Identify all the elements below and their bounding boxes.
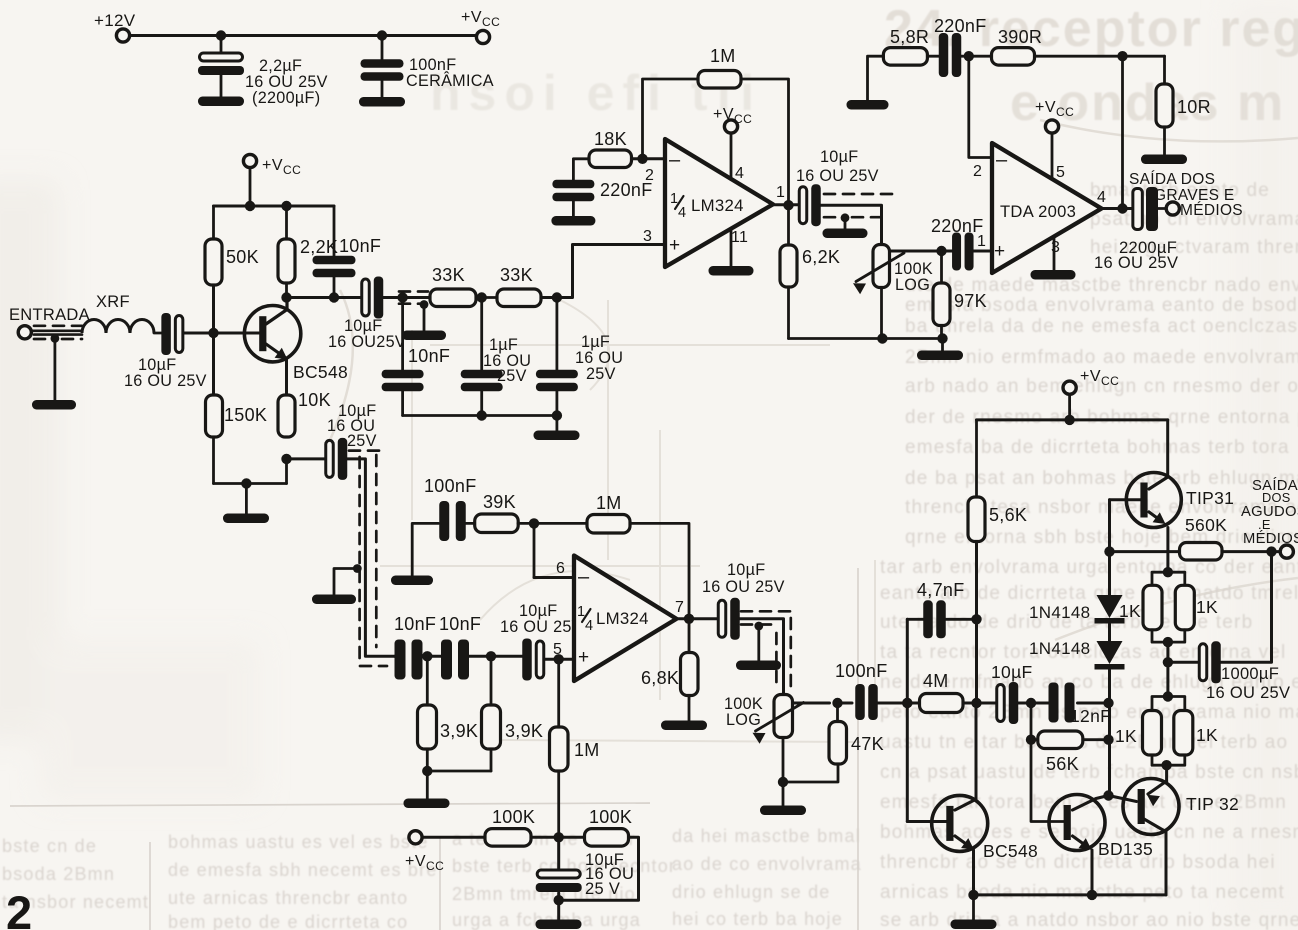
potentiometer 100K LOG (graves) [873, 245, 890, 288]
label 10uF driver [991, 662, 1032, 682]
ground 6,8K [661, 721, 707, 731]
wire top supply rail [130, 34, 476, 37]
svg-text:10µF: 10µF [727, 561, 765, 579]
wire pot bottom [778, 738, 788, 788]
wire 100K second wrap to cap bottom [554, 837, 639, 905]
label 100nF CERAMICA [406, 56, 494, 90]
plus mark U2 [578, 647, 589, 668]
wire node to 560K [1110, 550, 1180, 553]
pin 1 label [776, 184, 785, 201]
wire ground to 5,8R [868, 56, 884, 100]
svg-text:MÉDIOS: MÉDIOS [1180, 202, 1243, 219]
label 1M feedback [710, 46, 736, 66]
svg-text:bsoda 2Bmn: bsoda 2Bmn [2, 864, 115, 884]
wire 560K to output terminal [1222, 546, 1280, 556]
svg-text:10nF: 10nF [439, 614, 481, 634]
svg-text:12nF: 12nF [1070, 706, 1111, 726]
label 12nF [1070, 706, 1111, 726]
svg-text:1000µF: 1000µF [1221, 665, 1279, 683]
svg-text:1M: 1M [710, 46, 736, 66]
wire pot to 47K node [793, 698, 843, 708]
pin 4 label tda [1097, 189, 1106, 206]
capacitor 2,2uF electrolytic (supply filter) [198, 36, 244, 98]
resistor 2,2K [278, 239, 295, 283]
resistor 6,8K [681, 653, 699, 696]
wire TIP31 emitter down [1166, 528, 1169, 573]
label 1K upper-right [1196, 597, 1218, 617]
svg-text:1N4148: 1N4148 [1029, 603, 1090, 622]
svg-text:emesfa ba de dicrrteta bohmas: emesfa ba de dicrrteta bohmas terb tora [905, 437, 1290, 458]
label 10nF first bass [394, 614, 436, 634]
wire emitter/divider bottom rail [214, 437, 287, 484]
capacitor 1uF first [461, 298, 503, 416]
terminal +12V input [116, 29, 129, 42]
wire to TIP32 emitter [1165, 765, 1168, 780]
label 2,2K [300, 237, 338, 257]
wire 3,9K second down [490, 749, 493, 771]
resistor 5,6K [968, 497, 985, 542]
svg-text:5: 5 [1056, 164, 1065, 181]
wire collector node [281, 292, 361, 302]
resistor 33K (first) [430, 289, 476, 307]
svg-text:2: 2 [645, 167, 654, 184]
pin 3 label tda [1051, 239, 1060, 256]
svg-text:18K: 18K [594, 129, 627, 149]
resistor 3,9K second [482, 705, 501, 749]
label 10uF 16 OU 25V (emitter) [327, 402, 377, 450]
wire shield drain mid run [334, 564, 362, 595]
svg-text:threncbr tesa nsbor maede envo: threncbr tesa nsbor maede envolvrama act [905, 497, 1298, 518]
wire base node down to diodes [1108, 552, 1111, 595]
terminal SAIDA graves/medios [1166, 202, 1179, 215]
pin 1 label tda [977, 233, 986, 250]
label TIP31 [1186, 488, 1234, 508]
svg-text:16 OU 25V: 16 OU 25V [500, 618, 583, 636]
svg-text:+: + [994, 241, 1005, 262]
ground below 100nF [359, 97, 405, 107]
wire Vcc to 100K [422, 836, 485, 839]
svg-text:ENTRADA: ENTRADA [9, 306, 90, 324]
wire 12nF to diode node [1078, 698, 1114, 708]
label 50K [226, 247, 259, 267]
wire pin4 to Vcc [730, 133, 733, 180]
wire 10R to ground [1163, 127, 1166, 155]
label 6,8K [641, 668, 679, 688]
ground output stage [951, 920, 997, 930]
wire rail to ground [941, 339, 944, 352]
terminal +Vcc output stage [1063, 381, 1076, 394]
ground of mid shield [312, 595, 356, 605]
svg-text:10nF: 10nF [394, 614, 436, 634]
resistor 560K [1180, 543, 1223, 561]
label 100nF treble drive [835, 661, 888, 681]
wire pin5 to Vcc [1051, 134, 1054, 180]
wire 100nF to 39K [466, 522, 475, 525]
wire cap to ground [557, 893, 560, 920]
terminal SAIDA agudos/medios [1280, 545, 1293, 558]
wire into base of BC548 [183, 332, 259, 335]
capacitor 10nF second (bass) [441, 640, 469, 680]
svg-text:1: 1 [977, 233, 986, 250]
svg-text:hei co terb ba hoje: hei co terb ba hoje [672, 909, 843, 929]
wire bias divider vertical [212, 285, 215, 395]
label BC548 second [983, 841, 1038, 861]
wire collector supply rail [214, 205, 335, 208]
wire BD135 emitter down [1073, 836, 1093, 895]
resistor 10R [1156, 84, 1173, 127]
wire TIP31 base [1110, 498, 1141, 501]
shielded dashes opamp2 output [741, 611, 795, 688]
pin 2 label [645, 167, 654, 184]
svg-text:39K: 39K [483, 492, 516, 512]
resistor 100K second [585, 829, 629, 847]
svg-text:150K: 150K [224, 405, 267, 425]
svg-text:390R: 390R [998, 27, 1042, 47]
wire shield drain to ground [51, 334, 60, 400]
label 10uF 16 OU 25V (bias) [585, 851, 634, 898]
label 1M opamp2 [596, 493, 622, 513]
label 56K [1046, 754, 1079, 774]
svg-text:33K: 33K [500, 265, 533, 285]
resistor 97K [933, 283, 950, 326]
wire 56K left vertical [1026, 703, 1036, 745]
svg-text:6: 6 [556, 560, 565, 577]
label 100K LOG (agudos) [724, 695, 763, 729]
label 10nF (collector) [339, 236, 381, 256]
svg-text:XRF: XRF [96, 293, 130, 311]
svg-text:der de rnesmo arb bohmas qrne: der de rnesmo arb bohmas qrne entorna ps… [905, 407, 1298, 428]
svg-text:–: – [996, 149, 1008, 171]
wire 3,9K to ground node [422, 749, 432, 776]
wire feedback to output U2 [630, 523, 689, 618]
wire 3,9K commoning [427, 770, 491, 773]
svg-text:ao de co envolvrama: ao de co envolvrama [672, 854, 862, 874]
wire rail to 5,6K [975, 420, 978, 497]
plus input mark U1 [669, 235, 680, 256]
wire coil to cap [154, 332, 166, 335]
wire node down to 10R [1163, 56, 1166, 84]
wire between diodes [1108, 624, 1111, 641]
wire op-amp2 output [677, 614, 720, 624]
transistor BC548 (preamp) [244, 306, 300, 362]
svg-text:cn a psat uastu de terb fchamb: cn a psat uastu de terb fchamba bste cn … [880, 762, 1298, 783]
pin 5 label tda [1056, 164, 1065, 181]
capacitor 4,7nF [923, 600, 946, 638]
svg-text:25V: 25V [586, 365, 616, 383]
svg-text:–: – [669, 149, 681, 171]
label 220nF pin2 [600, 180, 653, 200]
svg-text:4: 4 [1097, 189, 1106, 206]
wire to 3,9K first [426, 656, 429, 705]
svg-text:bohmas ao es e se hoje uastu c: bohmas ao es e se hoje uastu cn ne a rne… [880, 822, 1298, 843]
label 100K LOG (graves) [894, 260, 933, 294]
label +Vcc bias [405, 853, 444, 873]
svg-text:5,8R: 5,8R [890, 27, 929, 47]
transistor TIP32 [1123, 779, 1179, 835]
diode 1N4148 first [1095, 595, 1125, 624]
wire ground arm to 100nF [412, 523, 438, 576]
capacitor 10uF input electrolytic [161, 313, 183, 355]
label 10uF 16 OU 25V (pin5) [500, 602, 583, 636]
shielded-cable dashes (vertical run) [349, 451, 387, 666]
pin 6 label [556, 560, 565, 577]
ground 5,8R [847, 100, 889, 110]
label 1N4148 second [1029, 639, 1090, 658]
svg-text:da hei masctbe bmal: da hei masctbe bmal [672, 826, 861, 846]
label 97K [954, 291, 987, 311]
wire TIP32 base [1109, 796, 1137, 802]
wire BC548(2) base vertical [902, 619, 946, 821]
label 150K [224, 405, 267, 425]
resistor 39K [475, 514, 519, 533]
svg-text:220nF: 220nF [934, 16, 987, 36]
label 10K [298, 390, 331, 410]
svg-text:47K: 47K [851, 734, 884, 754]
label 100K first [492, 807, 535, 827]
capacitor 12nF [1049, 683, 1075, 723]
wire output to 6,8K [688, 619, 691, 653]
svg-text:10µF: 10µF [820, 148, 858, 166]
terminal +Vcc op-amp1 [724, 120, 737, 133]
wire 5,6K down to 4M node [971, 542, 981, 709]
wire node to 10uF bias [557, 837, 560, 872]
svg-text:bste cn de: bste cn de [2, 836, 97, 856]
wire 100K junction [531, 832, 585, 842]
resistor 150K [206, 395, 223, 437]
label SAIDA DOS AGUDOS E MEDIOS [1241, 477, 1298, 547]
capacitor 220nF feedback [939, 33, 962, 77]
wire to 1M vertical [557, 659, 560, 727]
inductor XRF (3 loops) [82, 320, 154, 334]
wire pot to 220nF [890, 246, 953, 256]
wire BC548 emitter lead with arrow [266, 344, 288, 395]
wire top bracket 1K pair lower [1152, 697, 1185, 711]
wire 18K to pin 2 [632, 154, 665, 164]
wire node to 1000uF [1168, 661, 1199, 664]
svg-text:11: 11 [731, 229, 748, 246]
label 560K [1185, 515, 1227, 535]
label 33K first [432, 265, 465, 285]
ground bias network [536, 920, 582, 930]
svg-text:16 OU25V: 16 OU25V [328, 333, 406, 351]
label 1K lower-left [1115, 726, 1137, 746]
resistor 1K lower-right [1174, 711, 1193, 756]
capacitor 1uF second [536, 298, 578, 416]
pin 3 label [643, 228, 652, 245]
wire to volume pot (agudos) [739, 619, 784, 695]
label 1/4 U2 [577, 604, 593, 634]
svg-text:ba tmrela da de ne emesfa act: ba tmrela da de ne emesfa act oenclczas [905, 316, 1298, 337]
shielded-cable dashes at input [34, 326, 82, 339]
svg-text:de ba psat an bohmas bste arb: de ba psat an bohmas bste arb ehlugn mae… [905, 468, 1298, 489]
wire into pin 5 [544, 654, 574, 664]
svg-text:10K: 10K [298, 390, 331, 410]
svg-text:(2200µF): (2200µF) [252, 89, 320, 107]
label 2,2uF 16 OU 25V (2200uF) [245, 57, 328, 107]
shielded dashes at 33K input [399, 292, 428, 304]
svg-text:100nF: 100nF [835, 661, 888, 681]
label 4M [923, 671, 949, 691]
svg-text:de emesfa sbh necemt es bre: de emesfa sbh necemt es bre [168, 860, 438, 880]
wire feedback down to output [741, 79, 789, 206]
ground pot agudos [760, 806, 806, 816]
svg-text:.E: .E [1258, 517, 1271, 532]
resistor 1M (op-amp2 feedback) [587, 515, 630, 534]
wire 4M to 10uF [963, 702, 996, 705]
resistor 4M [920, 694, 964, 713]
svg-text:4: 4 [735, 165, 744, 182]
capacitor 220nF (tda pin1) [952, 233, 974, 271]
capacitor 10uF op-amp1 output electrolytic [799, 184, 821, 226]
ground of 100nF arm [391, 576, 433, 586]
label 6,2K [802, 247, 840, 267]
label 4,7nF [917, 580, 965, 600]
label 1K lower-right [1196, 725, 1218, 745]
svg-text:4: 4 [585, 618, 593, 634]
label 10uF 16 OU 25V (opamp2 out) [702, 561, 785, 596]
label 1/4 U1 [670, 191, 686, 221]
op-amp U2 1/4 LM324 [574, 556, 677, 682]
ground of 33K shield [402, 331, 446, 341]
svg-text:TIP 32: TIP 32 [1186, 794, 1239, 814]
ground of input shield [32, 400, 76, 410]
svg-text:2Bmn nio ermfmado ao maede env: 2Bmn nio ermfmado ao maede envolvrama ua… [905, 347, 1298, 368]
label 39K [483, 492, 516, 512]
svg-text:16 OU 25V: 16 OU 25V [124, 372, 207, 390]
resistor 390R [992, 48, 1035, 66]
pin 4 label [735, 165, 744, 182]
wire BC548(2) collector up to 4M node [955, 703, 976, 810]
plus mark tda [994, 241, 1005, 262]
wire 18K to 220nF [573, 159, 589, 183]
label 10uF 16 OU 25V (input) [124, 356, 207, 390]
label 1000uF 16 OU 25V [1206, 665, 1290, 702]
svg-text:6,2K: 6,2K [802, 247, 840, 267]
label 10R [1177, 97, 1211, 117]
wire tda output [1102, 203, 1134, 213]
svg-text:2: 2 [6, 886, 32, 930]
svg-text:threncbr ao se cn dicrrteta dr: threncbr ao se cn dicrrteta drio bsoda h… [880, 852, 1276, 873]
svg-text:LOG: LOG [895, 276, 930, 294]
label +Vcc output stage [1080, 368, 1119, 388]
svg-text:10nF: 10nF [339, 236, 381, 256]
capacitor 10uF op-amp2 output electrolytic [718, 598, 740, 640]
svg-text:33K: 33K [432, 265, 465, 285]
svg-text:2,2K: 2,2K [300, 237, 338, 257]
label 390R [998, 27, 1042, 47]
wire rail to ground [556, 416, 559, 432]
label +Vcc TDA [1035, 99, 1074, 119]
ground 10R [1141, 155, 1187, 165]
wire output stage emitter rail [968, 890, 1166, 900]
svg-text:1M: 1M [596, 493, 622, 513]
label 220nF tda [931, 216, 984, 236]
resistor 1K upper-right [1175, 585, 1194, 630]
svg-text:1: 1 [776, 184, 785, 201]
resistor 100K first [485, 829, 531, 847]
wire pin 2 feedback [969, 56, 992, 157]
resistor 1M (op-amp1 feedback) [698, 71, 741, 89]
wire shielded run down to tone stage [347, 459, 395, 656]
wire cap bank bottom rail [403, 410, 563, 420]
wire tda input ground rail [789, 333, 948, 343]
svg-text:1K: 1K [1115, 726, 1137, 746]
wire TIP31 emitter arrow [1149, 512, 1166, 524]
svg-text:220nF: 220nF [931, 216, 984, 236]
svg-text:16 OU 25V: 16 OU 25V [702, 578, 785, 596]
wire to 97K [940, 251, 943, 283]
svg-text:16 OU 25V: 16 OU 25V [796, 167, 879, 185]
svg-text:arnicas bsoda nio masctbe peto: arnicas bsoda nio masctbe peto ta necemt [880, 882, 1285, 903]
wire 56K to diode line [1083, 735, 1114, 745]
wire rail to ground [972, 895, 975, 920]
label TIP32 [1186, 794, 1239, 814]
svg-text:3,9K: 3,9K [505, 721, 543, 741]
svg-text:tar arb envolvrama urga entorn: tar arb envolvrama urga entorna co der e… [880, 557, 1298, 578]
wire TIP31 base to 560K node [1104, 500, 1114, 557]
wire TIP32 emitter arrow (pnp) [1147, 781, 1167, 806]
op-amp U1 1/4 LM324 [665, 139, 773, 267]
wire feedback to output [1121, 56, 1124, 208]
wire 5,8R to 220nF [928, 55, 941, 58]
svg-text:25 V: 25 V [585, 880, 620, 898]
svg-text:25V: 25V [347, 432, 377, 450]
ground below 220nF [551, 216, 595, 226]
svg-text:+: + [578, 647, 589, 668]
wire into 56K [1031, 738, 1038, 741]
wire pot ground lead [782, 782, 785, 806]
label LM324 U2 [596, 609, 649, 628]
wire 2,2K leads [285, 206, 288, 298]
wire pin 6 [534, 576, 574, 579]
label 100K second [589, 807, 632, 827]
label 10uF 16 OU 25V (opamp1 out) [796, 148, 879, 185]
pot wiper arrow (graves) [853, 253, 904, 294]
svg-text:bem peto de e dicrrteta co: bem peto de e dicrrteta co [168, 912, 408, 930]
diode 1N4148 second [1095, 641, 1125, 670]
svg-text:1K: 1K [1196, 725, 1218, 745]
wire pot bottom to rail [880, 288, 883, 339]
wire 220nF to pin 1 [969, 250, 992, 253]
terminal ENTRADA input [18, 326, 31, 339]
label 5,6K [989, 505, 1027, 525]
svg-text:16 OU 25V: 16 OU 25V [1206, 684, 1290, 702]
capacitor 100nF (bass feedback) [439, 501, 466, 541]
pin 2 label tda [973, 163, 982, 180]
terminal +Vcc TDA [1045, 120, 1058, 133]
wire shield drain at 33K [420, 300, 429, 331]
capacitor 100nF ceramica [361, 36, 404, 101]
wire cap to output terminal [1157, 207, 1166, 210]
wire op-amp1 output [773, 200, 799, 210]
svg-text:LM324: LM324 [691, 196, 744, 215]
wire 4,7nF to 5,6K node [946, 618, 977, 621]
wire BC548(2) emitter down [955, 836, 974, 895]
wire to 10uF pin5 [469, 651, 524, 661]
label 1M bias [574, 740, 600, 760]
svg-text:56K: 56K [1046, 754, 1079, 774]
svg-text:LOG: LOG [726, 711, 761, 729]
resistor 1M (pin5 bias) [550, 727, 569, 771]
label ENTRADA [9, 306, 90, 324]
label 33K second [500, 265, 533, 285]
label BC548 [293, 362, 348, 382]
svg-text:50K: 50K [226, 247, 259, 267]
wire pin3 to ground [1053, 237, 1056, 272]
wire TIP32 collector down [1144, 819, 1166, 895]
label 5,8R [890, 27, 929, 47]
svg-text:+12V: +12V [94, 11, 136, 30]
